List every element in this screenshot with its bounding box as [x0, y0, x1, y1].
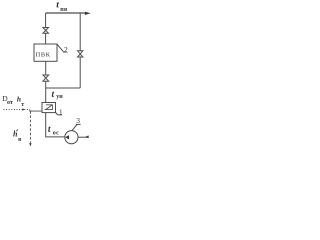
svg-text:ун: ун — [56, 94, 63, 100]
svg-text:ос: ос — [53, 130, 59, 136]
label h т — [17, 94, 24, 107]
arrow down outflow — [29, 143, 31, 146]
wire top supply line — [46, 12, 86, 14]
svg-text:от: от — [7, 100, 13, 106]
wire valve3 down to relay block — [45, 81, 47, 102]
svg-text:пв: пв — [60, 7, 68, 13]
label D от — [2, 94, 13, 106]
svg-text:3: 3 — [76, 116, 80, 125]
block ПВК boiler — [34, 44, 57, 61]
wire boiler to valve3 — [45, 61, 47, 75]
label t пв — [56, 1, 68, 13]
wire valve1 to boiler box — [45, 33, 47, 44]
pump triangle — [65, 135, 69, 139]
svg-text:ПВК: ПВК — [36, 51, 51, 58]
arrow flow into pump — [85, 135, 88, 138]
svg-text:t: t — [56, 1, 59, 11]
wire left vertical from corner — [45, 13, 47, 28]
leader dotted signal D h — [4, 109, 30, 111]
leader dashed down — [29, 111, 31, 143]
pump circle — [65, 131, 78, 144]
valve V1 — [43, 28, 49, 34]
arrow supply direction — [85, 12, 91, 15]
svg-text:1: 1 — [59, 109, 63, 117]
valve V2 right branch — [78, 51, 83, 57]
arrow on dotted leader — [22, 108, 24, 110]
wire cross connector — [46, 87, 80, 89]
wire pump outlet right — [78, 136, 89, 138]
relay characteristic symbol — [45, 105, 53, 110]
label t ос — [48, 125, 59, 137]
leader callout 3 — [72, 124, 81, 130]
valve V3 — [43, 75, 49, 81]
label t ун — [52, 90, 64, 100]
block relay regulator — [42, 103, 56, 113]
svg-text:2: 2 — [64, 45, 68, 54]
wire relay to pump line — [46, 113, 65, 137]
wire corner into relay — [30, 110, 42, 112]
svg-text:т: т — [21, 102, 24, 108]
leader callout 1 — [56, 113, 62, 116]
label h prime в — [13, 129, 22, 142]
svg-text:в: в — [18, 137, 22, 143]
wire right branch lower — [79, 57, 81, 88]
node T-junction top — [79, 13, 81, 51]
leader callout 2 — [57, 44, 67, 52]
svg-text:t: t — [48, 125, 51, 135]
svg-text:t: t — [52, 90, 55, 100]
